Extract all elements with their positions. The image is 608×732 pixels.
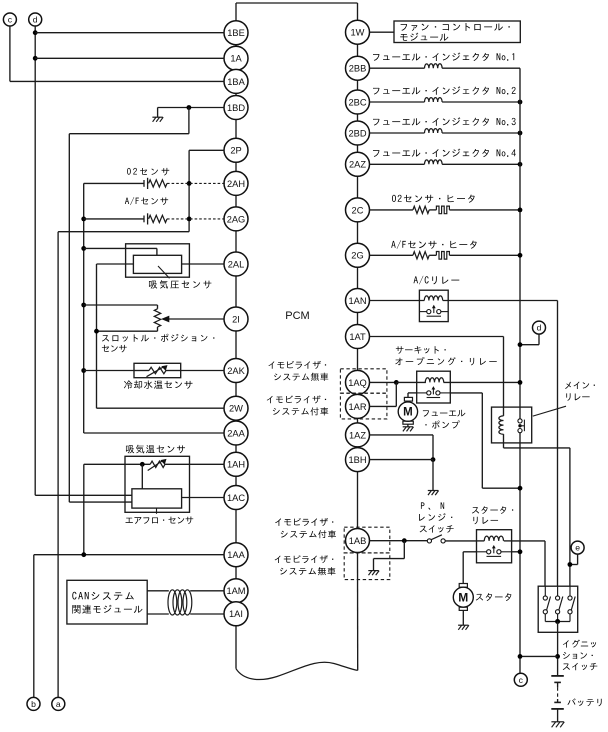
svg-text:1AH: 1AH <box>227 460 245 470</box>
MAP sensor outer box <box>126 244 190 277</box>
immobilizer dashed box 1AQ/1AR <box>340 369 387 419</box>
wire A/F heater mid <box>429 254 436 256</box>
junction dot 1BD branch <box>187 105 192 110</box>
fan control module box <box>394 21 520 43</box>
MAP sensor label <box>149 280 211 289</box>
starter relay label line1 <box>472 506 513 514</box>
svg-text:1AC: 1AC <box>227 493 245 503</box>
PCM connector pin 1AB <box>346 529 370 553</box>
wire net e <box>570 554 578 564</box>
O2 heater element <box>436 206 449 214</box>
ground (immobilizer-less) <box>368 571 379 576</box>
svg-text:2BB: 2BB <box>349 64 367 74</box>
O2 sensor resistor <box>149 180 167 187</box>
svg-text:2AA: 2AA <box>227 428 245 438</box>
wire MAP left pin to 2W line <box>97 264 134 408</box>
wire c-net horizontal <box>520 655 558 657</box>
ground (battery) <box>551 722 564 728</box>
svg-text:a: a <box>56 699 61 709</box>
wire COR contact right to bus <box>450 393 520 488</box>
junction dot common/AF <box>81 217 86 222</box>
net label c (top left) <box>3 13 16 26</box>
circuit opening relay label line1 <box>396 346 446 354</box>
fuel pump label line2 <box>425 420 459 428</box>
svg-text:1AQ: 1AQ <box>348 378 367 388</box>
wire ignition B feed down <box>557 301 559 587</box>
svg-text:1BD: 1BD <box>227 103 245 113</box>
COR contact <box>417 386 451 397</box>
wire COR coil <box>396 381 520 383</box>
immobilizer label 1AR line2 <box>273 407 328 415</box>
O2 sensor heater label <box>392 195 475 203</box>
fuel injector No.3 label <box>373 117 516 126</box>
svg-text:2G: 2G <box>351 251 363 261</box>
PCM connector pin 1BH <box>346 448 370 472</box>
wire injector No.2 left <box>370 101 425 103</box>
fan control label line1 <box>401 23 510 31</box>
PCM connector pin 1AM <box>224 579 248 603</box>
PCM connector pin 1AT <box>346 325 370 349</box>
svg-text:M: M <box>403 407 413 419</box>
svg-text:1BA: 1BA <box>227 77 245 87</box>
immobilizer label 1AB line1 <box>275 518 333 526</box>
A/C relay label <box>414 276 460 285</box>
fuel injector No.4 coil <box>425 160 443 164</box>
wire 1BE <box>35 32 224 34</box>
shielded wire to 2AH <box>167 182 225 184</box>
svg-text:2AK: 2AK <box>227 366 245 376</box>
A/C relay coil <box>424 296 442 301</box>
PCM connector pin 2BC <box>346 90 370 114</box>
wire 1AQ-1AR tie <box>370 382 397 406</box>
wire 1AB ground branch <box>374 541 405 571</box>
PCM connector pin 2P <box>224 138 248 162</box>
O2 heater resistor <box>413 206 429 213</box>
junction dot 2P/O2 shield <box>187 181 192 186</box>
svg-text:1BE: 1BE <box>227 28 245 38</box>
PCM connector pin 1AA <box>224 543 248 567</box>
junction dot COR contact bus <box>518 486 523 491</box>
junction dot A/F heater bus <box>518 253 523 258</box>
ignition switch contacts <box>543 586 575 621</box>
wire 2I wiper <box>166 318 225 320</box>
main relay box <box>492 407 532 443</box>
immobilizer label 1AB line2 <box>281 530 336 538</box>
net label e (right) <box>571 541 584 554</box>
PCM connector pin 1AR <box>346 394 370 418</box>
net label b (bottom left) <box>27 697 40 710</box>
wire 1BD to ground <box>158 108 224 118</box>
PCM connector pin 2W <box>224 396 248 420</box>
starter relay coil <box>484 536 503 541</box>
wire battery bus vertical (upper) <box>519 68 521 419</box>
main relay coil <box>499 416 504 434</box>
P-N switch label line1 <box>421 502 444 509</box>
wire 1AT to main relay <box>370 337 504 416</box>
MAP sensor body <box>133 255 181 273</box>
wire net d vertical down to airflow sensor <box>35 26 132 495</box>
starter relay label line2 <box>473 517 498 525</box>
circuit opening relay box <box>417 371 451 403</box>
wire starter relay coil <box>477 540 512 542</box>
junction dot common/MAP <box>81 246 86 251</box>
junction dot injector No.2 bus <box>518 100 523 105</box>
wire 1AC <box>182 497 224 499</box>
wire 1AN through A/C relay coil <box>370 300 558 302</box>
svg-text:2I: 2I <box>232 314 240 324</box>
wire 1A <box>35 57 224 59</box>
wire O2 heater left <box>370 209 413 211</box>
ignition switch common bar <box>545 619 570 624</box>
starter motor <box>453 584 473 611</box>
ground (fuel pump) <box>403 427 414 432</box>
net label d (top left) <box>29 13 42 26</box>
svg-text:2W: 2W <box>229 404 243 414</box>
P-N switch label line2 <box>419 513 452 521</box>
fuel pump label line1 <box>423 410 466 417</box>
wire A/F sensor left <box>84 218 144 220</box>
svg-text:1AI: 1AI <box>229 609 243 619</box>
fuel injector No.1 label <box>373 52 514 61</box>
wire 1W <box>370 31 395 33</box>
wire TPS bottom <box>97 327 158 331</box>
wire 1AH <box>84 463 224 465</box>
battery label <box>567 698 601 706</box>
junction dot battery/c-net <box>555 654 560 659</box>
immobilizer label 1AB line3 <box>275 555 334 563</box>
junction dot injector No.3 bus <box>518 131 523 136</box>
junction dot injector No.4 bus <box>518 162 523 167</box>
ECT thermistor <box>147 365 168 377</box>
wire CAN low <box>147 613 224 615</box>
junction dot TPS/2W line <box>94 329 99 334</box>
svg-text:2AH: 2AH <box>227 179 245 189</box>
CAN module box <box>67 580 147 624</box>
IAT/airflow outer box <box>125 456 190 512</box>
wire starter relay coil to ignition <box>512 541 545 586</box>
wire 1AZ <box>370 435 434 460</box>
wire 2P shield line <box>58 150 224 697</box>
shielded wire to 2AG <box>167 218 225 220</box>
net label a (bottom left) <box>52 697 65 710</box>
wire O2 sensor left <box>84 182 144 184</box>
PCM label <box>285 310 309 322</box>
wire ECT to 2AK <box>181 370 224 372</box>
wire 1AB <box>370 540 428 542</box>
PCM connector pin 1AC <box>224 486 248 510</box>
wire starter motor ground <box>462 610 464 625</box>
PCM connector pin 2BD <box>346 121 370 145</box>
junction dot d/1BE <box>33 30 38 35</box>
CAN twisted pair <box>168 590 192 615</box>
wire net c to 1BA <box>10 26 224 81</box>
junction dot e <box>568 562 573 567</box>
wire ECT inside <box>134 370 181 372</box>
A/F heater resistor <box>413 252 429 259</box>
A/C relay box <box>419 290 448 321</box>
svg-text:2P: 2P <box>230 146 241 156</box>
svg-text:1AN: 1AN <box>348 296 366 306</box>
svg-text:PCM: PCM <box>285 310 309 322</box>
CAN label line1 <box>72 592 134 600</box>
svg-text:1AR: 1AR <box>348 402 366 412</box>
wire CAN high <box>147 590 224 592</box>
junction dot 1AQ/1AR <box>394 380 399 385</box>
svg-text:e: e <box>575 543 580 553</box>
wire net d to bus <box>520 334 539 345</box>
fuel injector No.2 label <box>373 86 516 95</box>
junction dot 1AA/sensor-ground <box>81 552 86 557</box>
wire MAP top pin <box>84 248 157 255</box>
wire injector No.4 right <box>442 163 520 165</box>
wire injector No.1 right <box>442 67 520 69</box>
airflow sensor body <box>132 489 182 508</box>
junction dot 2P/AF shield <box>187 217 192 222</box>
wire starter relay contact left <box>463 552 476 584</box>
IAT thermistor <box>148 459 167 471</box>
wire injector No.2 right <box>442 101 520 103</box>
svg-text:1W: 1W <box>351 28 365 38</box>
ignition switch label line2 <box>563 652 593 659</box>
svg-text:2BC: 2BC <box>348 97 366 107</box>
junction dot common/ECT <box>81 368 86 373</box>
wire ECT left <box>84 370 134 372</box>
PCM module outline with torn bottom edge <box>236 3 358 680</box>
PCM connector pin 1AH <box>224 452 248 476</box>
PCM connector pin 1AZ <box>346 423 370 447</box>
svg-text:2C: 2C <box>352 205 364 215</box>
battery <box>551 676 564 722</box>
wire 1AQ <box>370 381 397 383</box>
TPS label line2 <box>102 345 127 353</box>
net label c (bottom right) <box>514 673 527 686</box>
ground (starter) <box>458 625 469 630</box>
PCM connector pin 1BE <box>224 21 248 45</box>
airflow label <box>126 517 194 525</box>
COR coil <box>425 378 443 383</box>
A/F heater element <box>436 252 449 260</box>
PCM connector pin 1BD <box>224 96 248 120</box>
svg-text:c: c <box>519 675 524 685</box>
wire ignition to battery <box>557 622 559 676</box>
wire COR contact to fuel pump <box>408 393 417 398</box>
IAT label <box>126 445 185 454</box>
ECT label <box>124 380 193 389</box>
P-N switch label line3 <box>420 525 454 532</box>
PCM connector pin 1BA <box>224 69 248 93</box>
airflow pointer <box>156 508 158 514</box>
wire 1AA <box>34 555 224 698</box>
immobilizer label 1AB line4 <box>280 567 335 575</box>
junction dot O2 heater bus <box>518 208 523 213</box>
wire fuel pump ground <box>407 424 409 427</box>
PCM connector pin 1A <box>224 46 248 70</box>
svg-text:c: c <box>8 15 13 25</box>
svg-text:d: d <box>33 15 38 25</box>
main relay pointer <box>533 406 566 416</box>
junction dot IAT <box>140 462 145 467</box>
A/F sensor cell <box>144 213 148 224</box>
PCM connector pin 2AG <box>224 207 248 231</box>
A/C relay contact <box>419 305 448 316</box>
wire IAT down to airflow body <box>141 464 143 489</box>
ignition switch label line1 <box>563 640 596 648</box>
wire A/F heater right <box>449 254 520 256</box>
PCM connector pin 2C <box>346 198 370 222</box>
wire main relay coil bottom <box>504 434 570 586</box>
starter relay box <box>477 530 512 563</box>
wire 2AL <box>182 263 224 265</box>
svg-text:1AZ: 1AZ <box>349 430 366 440</box>
wire 1AH ground branch <box>83 464 85 554</box>
circuit opening relay label line2 <box>395 357 497 365</box>
fuel injector No.4 label <box>373 149 516 158</box>
svg-text:b: b <box>31 699 36 709</box>
svg-text:1AB: 1AB <box>349 536 367 546</box>
O2 sensor label <box>127 168 169 176</box>
O2 sensor cell <box>144 178 148 189</box>
junction dot 1AB <box>402 538 407 543</box>
immobilizer label 1AQ line2 <box>274 373 328 381</box>
ignition switch label line3 <box>563 663 598 670</box>
fuel injector No.2 coil <box>425 98 443 102</box>
wire 1BH <box>370 460 434 491</box>
A/F sensor heater label <box>391 240 476 249</box>
svg-text:d: d <box>537 323 542 333</box>
PCM connector pin 2AH <box>224 171 248 195</box>
starter motor label <box>476 593 512 601</box>
immobilizer label 1AR line1 <box>267 395 326 403</box>
ignition switch box <box>538 586 578 632</box>
TPS resistor <box>154 309 160 327</box>
fan control label line2 <box>400 33 448 41</box>
PCM connector pin 1W <box>346 20 370 44</box>
P-N range switch <box>427 535 445 543</box>
wire injector No.1 left <box>370 67 425 69</box>
wire 1BD branch down-left <box>69 108 189 503</box>
PCM connector pin 1AN <box>346 289 370 313</box>
wire TPS top <box>84 305 158 309</box>
A/F sensor resistor <box>149 215 167 222</box>
svg-text:M: M <box>458 590 468 604</box>
PCM connector pin 2I <box>224 307 248 331</box>
fuel injector No.3 coil <box>425 129 443 133</box>
wire injector No.3 right <box>442 132 520 134</box>
fuel pump motor <box>398 397 417 424</box>
junction dot COR coil bus <box>518 380 523 385</box>
starter relay contact <box>477 545 512 556</box>
junction dot d/bus <box>518 342 523 347</box>
ground (1BD) <box>152 117 163 122</box>
wire injector No.3 left <box>370 132 425 134</box>
wire starter relay contact right <box>512 551 520 553</box>
svg-text:2BD: 2BD <box>348 128 366 138</box>
PCM connector pin 2AA <box>224 421 248 445</box>
svg-text:1AT: 1AT <box>349 332 366 342</box>
wire injector No.4 left <box>370 163 425 165</box>
PCM connector pin 2AK <box>224 359 248 383</box>
svg-text:1BH: 1BH <box>348 455 366 465</box>
wire O2 heater right <box>449 209 520 211</box>
wire sensor common vertical <box>84 183 224 433</box>
svg-text:2AZ: 2AZ <box>349 160 366 170</box>
junction dot starter/bus <box>518 549 523 554</box>
PCM connector pin 2G <box>346 243 370 267</box>
TPS wiper arrow <box>161 316 169 323</box>
svg-text:1AM: 1AM <box>226 586 245 596</box>
svg-text:2AG: 2AG <box>227 214 246 224</box>
ground (1BH) <box>428 491 439 496</box>
CAN label line2 <box>72 605 142 614</box>
svg-text:1AA: 1AA <box>227 550 245 560</box>
wire A/F heater left <box>370 254 413 256</box>
junction dot bus/c-net <box>518 654 523 659</box>
wire battery bus vertical (lower) <box>519 433 521 674</box>
fuel injector No.1 coil <box>425 64 443 68</box>
junction dot d/1A <box>33 56 38 61</box>
wire 2W <box>97 407 225 409</box>
junction dot common/TPS <box>81 303 86 308</box>
immobilizer dashed box 1AB <box>344 527 390 579</box>
MAP sensor pointer <box>158 266 170 278</box>
main relay contact <box>518 419 525 433</box>
PCM connector pin 2BB <box>346 56 370 80</box>
PCM connector pin 2AL <box>224 252 248 276</box>
wire switch to starter relay <box>445 540 476 542</box>
PCM connector pin 1AI <box>224 602 248 626</box>
PCM connector pin 2AZ <box>346 152 370 176</box>
PCM connector pin 1AQ <box>346 370 370 394</box>
A/F sensor label <box>125 197 168 205</box>
main relay label line2 <box>566 393 589 401</box>
net label d (right, above main relay) <box>533 321 546 334</box>
svg-text:1A: 1A <box>230 54 242 64</box>
immobilizer label 1AQ line1 <box>268 361 326 369</box>
svg-text:2AL: 2AL <box>228 259 245 269</box>
junction dot 1AZ/1BH <box>431 457 436 462</box>
ECT sensor box <box>134 363 181 377</box>
wire O2 heater mid <box>429 209 436 211</box>
main relay label line1 <box>565 382 595 389</box>
TPS label line1 <box>102 334 214 342</box>
